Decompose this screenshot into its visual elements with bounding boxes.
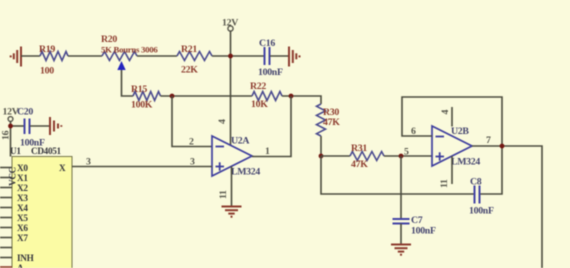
ground (right of C20): [50, 117, 61, 135]
svg-text:4: 4: [440, 110, 451, 115]
svg-text:LM324: LM324: [231, 167, 260, 178]
wire R30 to junction: [320, 136, 322, 156]
pin X1 stub: [0, 177, 12, 179]
svg-text:X0: X0: [17, 163, 28, 173]
svg-text:5: 5: [404, 147, 409, 158]
svg-text:R31: R31: [351, 143, 367, 154]
pin X4 stub: [0, 207, 12, 209]
svg-text:X2: X2: [17, 183, 28, 193]
capacitor C8: [475, 186, 480, 204]
svg-text:11: 11: [439, 179, 450, 188]
svg-text:X5: X5: [17, 213, 28, 223]
svg-text:R19: R19: [39, 44, 55, 55]
svg-text:100K: 100K: [131, 100, 153, 111]
svg-text:R21: R21: [181, 44, 197, 55]
junction R30/R31: [319, 154, 324, 159]
svg-text:47K: 47K: [351, 159, 368, 170]
svg-text:10K: 10K: [251, 99, 268, 110]
U2A pin11 stub: [231, 166, 233, 206]
wire junction to C20: [11, 125, 25, 127]
svg-text:4: 4: [217, 119, 228, 124]
svg-text:U2B: U2B: [451, 126, 469, 137]
wire C16 to ground: [270, 55, 289, 57]
svg-text:7: 7: [486, 135, 491, 146]
unlabeled pin stub: [0, 247, 12, 249]
wire R19 to R20: [68, 55, 102, 57]
svg-text:U2A: U2A: [231, 136, 249, 147]
wire C20 to ground: [30, 125, 50, 127]
pin A stub: [0, 266, 12, 268]
U2B pin4 stub: [451, 107, 453, 127]
wire R20 wiper down to R15 row: [122, 70, 134, 96]
wire 12V circle to junction: [10, 121, 12, 126]
resistor R31: [350, 152, 384, 161]
potentiometer R20: [102, 52, 137, 61]
ground (below C7): [391, 245, 411, 255]
pin X7 stub: [0, 237, 12, 239]
resistor R30: [317, 104, 326, 136]
svg-text:X4: X4: [17, 203, 28, 213]
op-amp U2B: [432, 126, 472, 166]
junction 12V / C16: [228, 54, 233, 59]
wire X output to U2A pin3: [72, 166, 212, 168]
svg-text:A: A: [17, 263, 24, 268]
svg-text:100nF: 100nF: [411, 226, 436, 237]
wire R21 to C16: [212, 55, 264, 57]
capacitor C20: [25, 119, 30, 135]
wire C7 to ground: [400, 224, 402, 245]
svg-text:INH: INH: [17, 253, 34, 263]
svg-text:R22: R22: [250, 81, 266, 92]
ground (right of C16): [289, 47, 300, 67]
svg-text:C8: C8: [470, 177, 482, 188]
wire R20 to R21: [137, 55, 177, 57]
op-amp U2A: [212, 136, 252, 176]
svg-text:47K: 47K: [323, 117, 340, 128]
R20 wiper arrow: [117, 61, 125, 70]
resistor R15: [133, 92, 161, 101]
resistor R21: [177, 52, 212, 61]
junction R22 / U2A feedback: [289, 94, 294, 99]
capacitor C16: [265, 47, 270, 65]
pin INH stub: [0, 257, 12, 259]
svg-text:C20: C20: [17, 107, 33, 118]
junction at 12V/C20/pin16: [8, 124, 13, 129]
wire pin2 branch: [172, 96, 212, 147]
wire R22 to R30 corner: [282, 96, 321, 104]
svg-text:X1: X1: [17, 173, 28, 183]
svg-text:LM324: LM324: [451, 157, 480, 168]
12V power port (top): [222, 18, 238, 32]
svg-text:11: 11: [218, 190, 229, 199]
wire junction down to C8 line: [321, 156, 474, 194]
svg-text:C16: C16: [259, 38, 275, 49]
wire ground to R19: [21, 55, 40, 57]
ground (below U2A): [222, 207, 242, 217]
svg-text:2: 2: [189, 137, 194, 148]
wire R31 to U2B pin5: [384, 155, 432, 157]
U2B pin11 stub: [451, 156, 453, 184]
svg-text:12V: 12V: [222, 18, 238, 29]
svg-text:1: 1: [265, 146, 270, 157]
resistor R22: [252, 92, 282, 101]
svg-text:X7: X7: [17, 233, 28, 243]
svg-text:100nF: 100nF: [20, 138, 45, 149]
svg-text:VCC: VCC: [8, 167, 18, 186]
junction U2B output/feedback: [500, 144, 505, 149]
pin X3 stub: [0, 197, 12, 199]
svg-text:5K Bourns 3006: 5K Bourns 3006: [101, 45, 158, 55]
svg-text:X: X: [59, 163, 66, 173]
svg-text:R20: R20: [101, 34, 117, 45]
pin X0 stub: [0, 167, 12, 169]
svg-text:X6: X6: [17, 223, 28, 233]
junction R31/pin5/C7: [399, 154, 404, 159]
junction R15 / pin2 branch: [170, 94, 175, 99]
12V power port (left, for pin 16): [3, 107, 19, 122]
wire U2A output feedback: [252, 96, 291, 157]
svg-text:100nF: 100nF: [258, 67, 283, 78]
wire pin16 down to chip: [10, 126, 12, 157]
wire U2B output: [472, 146, 542, 268]
svg-text:C7: C7: [411, 215, 423, 226]
svg-text:R15: R15: [131, 84, 147, 95]
capacitor C7: [393, 219, 410, 224]
U2B feedback loop wire: [402, 97, 502, 194]
svg-text:3: 3: [86, 157, 91, 168]
wire down to C7: [400, 156, 402, 218]
svg-text:100nF: 100nF: [469, 206, 494, 217]
pin X6 stub: [0, 227, 12, 229]
pin X5 stub: [0, 217, 12, 219]
pin X2 stub: [0, 187, 12, 189]
wire junction to R31: [321, 155, 350, 157]
wire 12V down to U2A pin4: [230, 31, 232, 145]
U1 CD4051 chip body: [12, 157, 72, 268]
wire R15 to R22: [161, 95, 253, 97]
svg-text:100: 100: [40, 66, 54, 77]
svg-text:22K: 22K: [181, 65, 198, 76]
svg-text:X3: X3: [17, 193, 28, 203]
resistor R19: [40, 52, 68, 61]
ground (left of R19): [11, 47, 21, 67]
